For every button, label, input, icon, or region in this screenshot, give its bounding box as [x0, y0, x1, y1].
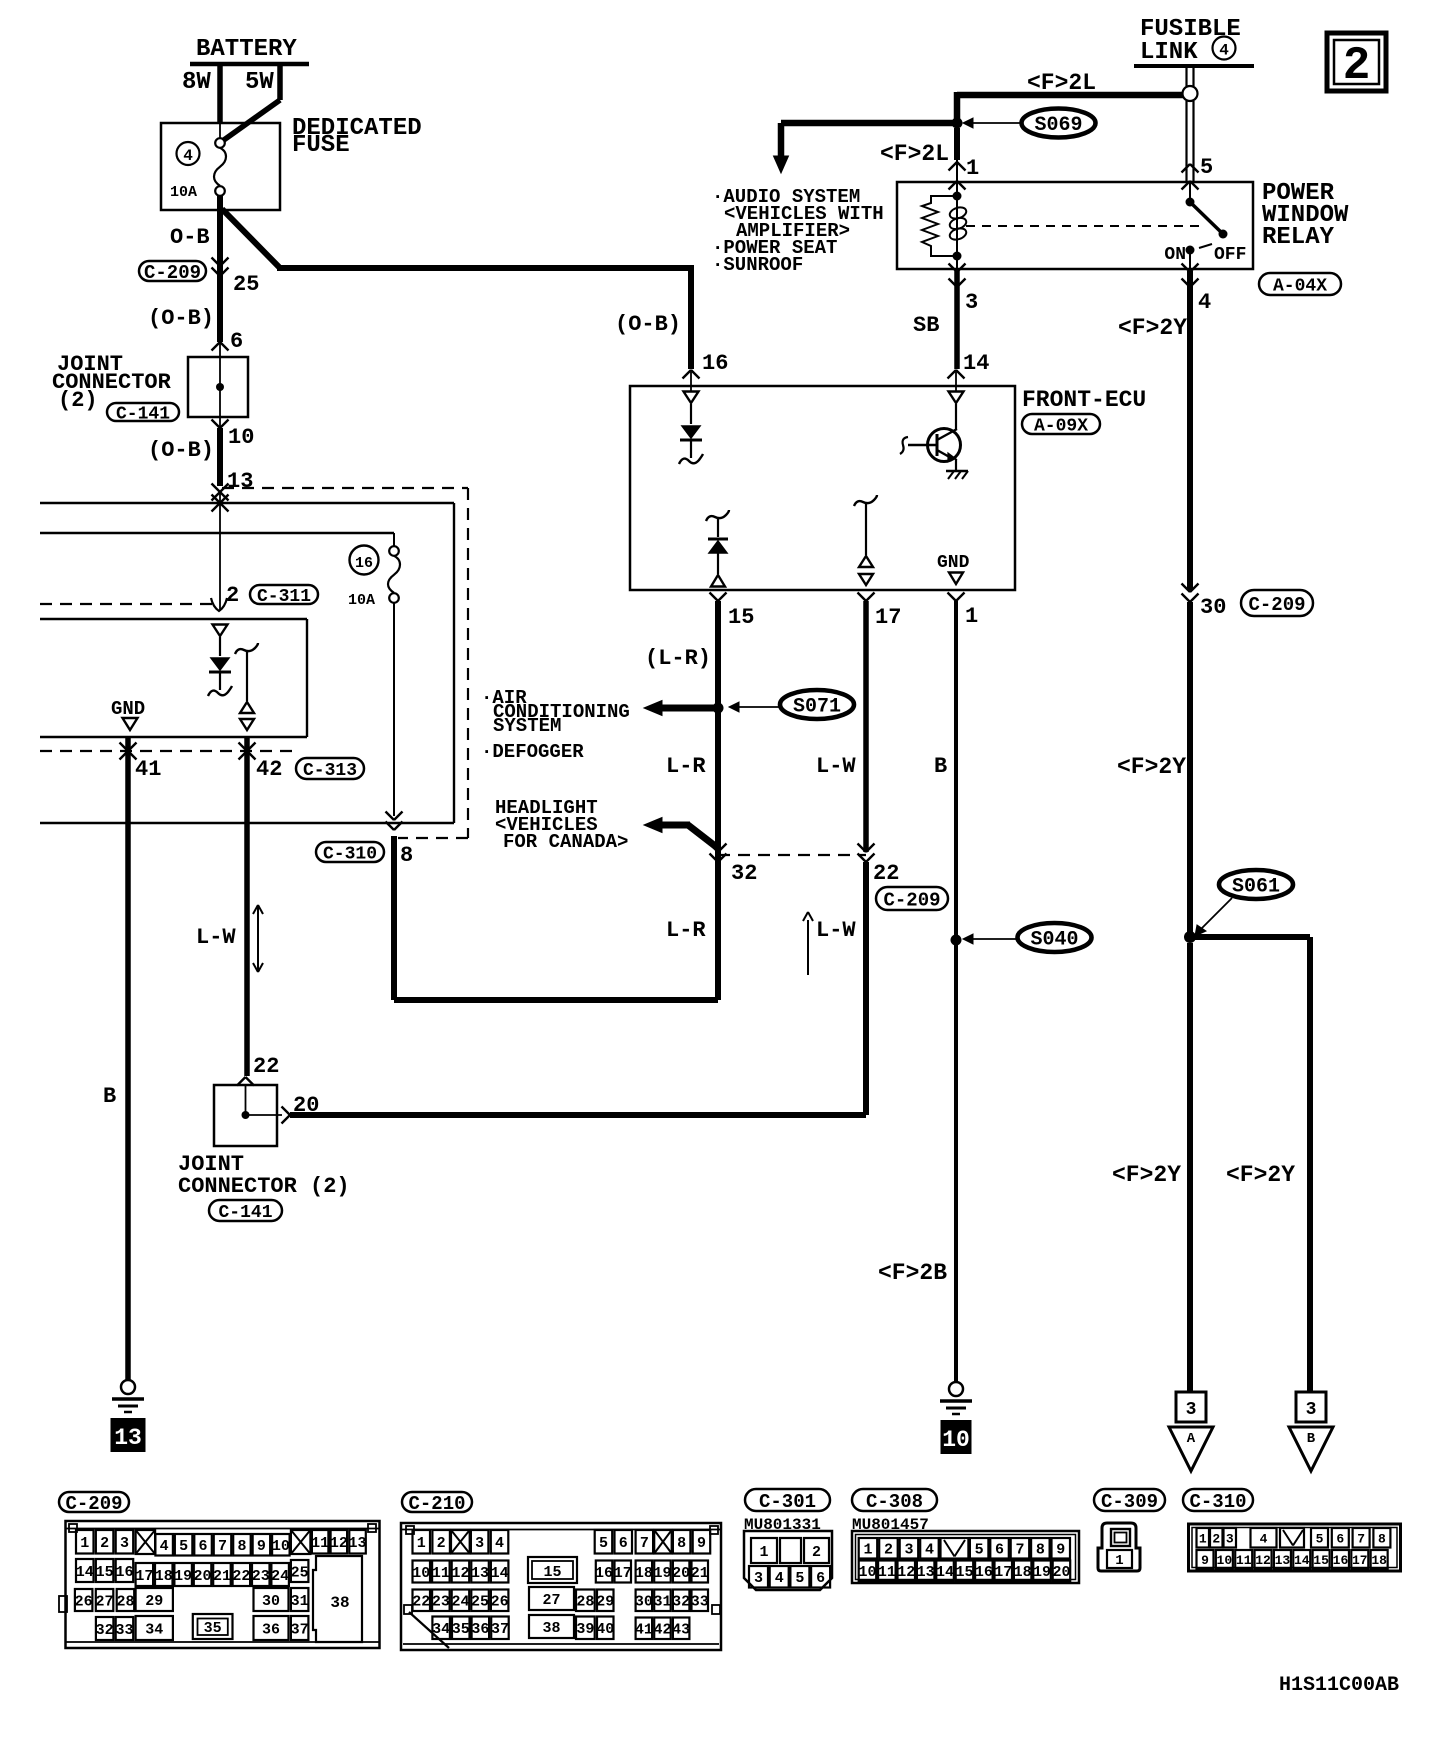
svg-text:36: 36 [471, 1621, 489, 1638]
svg-text:16: 16 [115, 1564, 133, 1581]
svg-text:4: 4 [183, 147, 193, 165]
svg-text:13: 13 [114, 1425, 142, 1451]
svg-text:3: 3 [904, 1542, 913, 1559]
svg-text:1: 1 [80, 1535, 89, 1552]
svg-text:A-09X: A-09X [1034, 416, 1088, 436]
svg-text:13: 13 [227, 469, 253, 494]
svg-text:22: 22 [232, 1568, 250, 1585]
svg-text:2: 2 [1343, 40, 1371, 92]
svg-text:3: 3 [754, 1570, 763, 1587]
svg-text:·SUNROOF: ·SUNROOF [712, 254, 803, 276]
svg-text:34: 34 [145, 1621, 163, 1638]
svg-text:A-04X: A-04X [1273, 276, 1327, 296]
svg-text:12: 12 [330, 1535, 348, 1552]
svg-text:B: B [934, 754, 947, 779]
svg-text:32: 32 [96, 1622, 114, 1639]
svg-text:7: 7 [218, 1538, 227, 1555]
svg-text:SYSTEM: SYSTEM [493, 715, 561, 737]
svg-text:42: 42 [653, 1622, 671, 1639]
svg-text:<F>2B: <F>2B [878, 1260, 947, 1286]
svg-text:15: 15 [1313, 1553, 1329, 1568]
svg-text:16: 16 [1333, 1553, 1349, 1568]
svg-text:28: 28 [576, 1594, 594, 1611]
svg-text:2: 2 [226, 583, 239, 608]
svg-text:·DEFOGGER: ·DEFOGGER [481, 741, 584, 763]
svg-text:H1S11C00AB: H1S11C00AB [1279, 1674, 1399, 1697]
svg-text:9: 9 [1056, 1542, 1065, 1559]
svg-text:3: 3 [475, 1535, 484, 1552]
svg-text:11: 11 [878, 1564, 896, 1581]
svg-text:<F>2L: <F>2L [1027, 70, 1096, 96]
svg-text:13: 13 [349, 1535, 367, 1552]
svg-text:5: 5 [599, 1535, 608, 1552]
svg-text:29: 29 [596, 1594, 614, 1611]
svg-text:5: 5 [1200, 155, 1213, 180]
svg-text:11: 11 [432, 1565, 450, 1582]
svg-text:SB: SB [913, 313, 939, 338]
svg-text:FRONT-ECU: FRONT-ECU [1022, 387, 1146, 413]
svg-text:4: 4 [1198, 290, 1211, 315]
svg-text:19: 19 [1033, 1564, 1051, 1581]
svg-text:2: 2 [437, 1535, 446, 1552]
svg-text:L-R: L-R [666, 918, 706, 943]
svg-text:LINK: LINK [1140, 39, 1198, 66]
svg-text:17: 17 [135, 1568, 153, 1585]
svg-text:20: 20 [672, 1565, 690, 1582]
svg-text:4: 4 [160, 1538, 169, 1555]
svg-text:4: 4 [775, 1570, 784, 1587]
svg-text:RELAY: RELAY [1262, 224, 1335, 251]
svg-text:<F>2Y: <F>2Y [1112, 1162, 1181, 1188]
svg-text:L-W: L-W [196, 925, 236, 950]
svg-text:14: 14 [491, 1565, 509, 1582]
svg-text:27: 27 [96, 1593, 114, 1610]
svg-text:C-301: C-301 [759, 1491, 816, 1513]
svg-text:C-141: C-141 [116, 404, 170, 424]
svg-text:15: 15 [543, 1564, 561, 1581]
svg-text:C-308: C-308 [866, 1491, 923, 1513]
svg-text:3: 3 [1186, 1400, 1197, 1420]
svg-text:18: 18 [1371, 1553, 1387, 1568]
svg-text:C-209: C-209 [1248, 594, 1305, 616]
svg-text:1: 1 [1115, 1553, 1123, 1569]
svg-text:7: 7 [640, 1535, 649, 1552]
svg-text:<F>2L: <F>2L [880, 141, 949, 167]
svg-text:4: 4 [1260, 1531, 1268, 1546]
svg-text:17: 17 [875, 605, 901, 630]
svg-text:24: 24 [451, 1594, 469, 1611]
svg-text:20: 20 [194, 1568, 212, 1585]
svg-text:10A: 10A [348, 592, 375, 609]
svg-text:10: 10 [228, 425, 254, 450]
svg-text:15: 15 [955, 1564, 973, 1581]
svg-text:10A: 10A [170, 184, 197, 201]
svg-text:L-W: L-W [816, 918, 856, 943]
svg-text:31: 31 [653, 1594, 671, 1611]
svg-text:GND: GND [111, 698, 145, 720]
svg-text:16: 16 [355, 555, 373, 572]
svg-text:30: 30 [635, 1594, 653, 1611]
svg-text:22: 22 [253, 1054, 279, 1079]
svg-text:5: 5 [975, 1542, 984, 1559]
svg-text:26: 26 [75, 1593, 93, 1610]
svg-text:23: 23 [432, 1594, 450, 1611]
svg-text:10: 10 [1217, 1553, 1233, 1568]
svg-text:C-311: C-311 [257, 587, 311, 607]
svg-text:12: 12 [451, 1565, 469, 1582]
svg-text:11: 11 [1236, 1553, 1252, 1568]
svg-text:6: 6 [230, 329, 243, 354]
svg-text:15: 15 [728, 605, 754, 630]
svg-text:16: 16 [702, 351, 728, 376]
svg-text:8: 8 [677, 1535, 686, 1552]
svg-text:21: 21 [213, 1568, 231, 1585]
svg-text:35: 35 [452, 1621, 470, 1638]
svg-text:O-B: O-B [170, 225, 210, 250]
svg-text:37: 37 [491, 1621, 509, 1638]
svg-text:10: 10 [858, 1564, 876, 1581]
svg-text:<F>2Y: <F>2Y [1117, 754, 1186, 780]
svg-text:14: 14 [936, 1564, 954, 1581]
svg-text:25: 25 [233, 272, 259, 297]
svg-text:8: 8 [1378, 1531, 1386, 1546]
svg-text:9: 9 [1201, 1553, 1209, 1568]
svg-text:C-210: C-210 [408, 1493, 465, 1515]
svg-text:11: 11 [311, 1535, 329, 1552]
svg-text:1: 1 [759, 1544, 768, 1561]
svg-text:1: 1 [966, 156, 979, 181]
svg-text:2: 2 [1212, 1531, 1220, 1546]
svg-text:20: 20 [1052, 1564, 1070, 1581]
svg-text:17: 17 [614, 1565, 632, 1582]
svg-text:6: 6 [199, 1538, 208, 1555]
svg-text:34: 34 [432, 1621, 450, 1638]
svg-text:14: 14 [1294, 1553, 1310, 1568]
svg-text:6: 6 [995, 1542, 1004, 1559]
svg-text:38: 38 [330, 1594, 349, 1612]
svg-text:ON: ON [1164, 245, 1186, 265]
svg-text:13: 13 [471, 1565, 489, 1582]
svg-text:FOR CANADA>: FOR CANADA> [503, 831, 628, 853]
svg-text:14: 14 [76, 1564, 94, 1581]
svg-text:C-209: C-209 [144, 262, 201, 284]
svg-text:13: 13 [917, 1564, 935, 1581]
svg-text:2: 2 [812, 1544, 821, 1561]
svg-text:15: 15 [96, 1564, 114, 1581]
svg-text:36: 36 [262, 1621, 280, 1638]
svg-text:27: 27 [542, 1592, 560, 1609]
svg-text:38: 38 [542, 1620, 560, 1637]
svg-text:5: 5 [179, 1538, 188, 1555]
svg-text:30: 30 [262, 1593, 280, 1610]
svg-text:3: 3 [1226, 1531, 1234, 1546]
svg-text:24: 24 [271, 1568, 289, 1585]
svg-text:S040: S040 [1030, 929, 1078, 952]
svg-text:8: 8 [400, 843, 413, 868]
svg-text:B: B [1307, 1431, 1316, 1447]
svg-text:6: 6 [1336, 1531, 1344, 1546]
svg-text:41: 41 [135, 757, 161, 782]
svg-text:(2): (2) [58, 388, 98, 413]
svg-text:19: 19 [174, 1568, 192, 1585]
svg-text:25: 25 [471, 1594, 489, 1611]
svg-text:<F>2Y: <F>2Y [1226, 1162, 1295, 1188]
svg-text:C-209: C-209 [65, 1493, 122, 1515]
svg-text:26: 26 [491, 1594, 509, 1611]
svg-text:3: 3 [1306, 1400, 1317, 1420]
svg-text:(O-B): (O-B) [148, 306, 214, 331]
svg-text:1: 1 [417, 1535, 426, 1552]
svg-text:32: 32 [672, 1594, 690, 1611]
svg-text:3: 3 [120, 1535, 129, 1552]
svg-text:18: 18 [635, 1565, 653, 1582]
svg-text:6: 6 [816, 1570, 825, 1587]
svg-text:28: 28 [116, 1593, 134, 1610]
svg-text:16: 16 [595, 1565, 613, 1582]
svg-text:32: 32 [731, 861, 757, 886]
svg-text:37: 37 [291, 1621, 309, 1638]
svg-text:5W: 5W [245, 69, 274, 96]
svg-text:C-310: C-310 [323, 844, 377, 864]
svg-text:13: 13 [1275, 1553, 1291, 1568]
svg-text:33: 33 [691, 1594, 709, 1611]
svg-text:(O-B): (O-B) [615, 312, 681, 337]
svg-text:42: 42 [256, 757, 282, 782]
svg-text:(O-B): (O-B) [148, 438, 214, 463]
svg-text:4: 4 [495, 1535, 504, 1552]
svg-text:C-310: C-310 [1189, 1491, 1246, 1513]
svg-text:B: B [103, 1084, 116, 1109]
svg-text:OFF: OFF [1214, 245, 1246, 265]
svg-text:BATTERY: BATTERY [196, 36, 297, 63]
svg-text:A: A [1187, 1431, 1196, 1447]
svg-text:30: 30 [1200, 595, 1226, 620]
svg-text:22: 22 [412, 1594, 430, 1611]
svg-text:16: 16 [975, 1564, 993, 1581]
svg-text:C-209: C-209 [883, 889, 940, 911]
svg-text:3: 3 [965, 290, 978, 315]
svg-text:S069: S069 [1034, 114, 1082, 137]
svg-text:S061: S061 [1232, 876, 1280, 899]
svg-text:6: 6 [619, 1535, 628, 1552]
svg-text:12: 12 [897, 1564, 915, 1581]
svg-text:8W: 8W [182, 69, 211, 96]
svg-text:12: 12 [1255, 1553, 1271, 1568]
svg-text:17: 17 [1352, 1553, 1368, 1568]
svg-text:41: 41 [635, 1622, 653, 1639]
svg-text:22: 22 [873, 861, 899, 886]
svg-text:10: 10 [412, 1565, 430, 1582]
svg-text:18: 18 [155, 1568, 173, 1585]
svg-text:7: 7 [1357, 1531, 1365, 1546]
svg-text:43: 43 [672, 1622, 690, 1639]
svg-text:FUSE: FUSE [292, 132, 350, 159]
svg-text:5: 5 [1316, 1531, 1324, 1546]
svg-text:31: 31 [291, 1593, 309, 1610]
svg-text:25: 25 [291, 1564, 309, 1581]
svg-text:21: 21 [691, 1565, 709, 1582]
svg-text:8: 8 [1036, 1542, 1045, 1559]
svg-text:33: 33 [115, 1622, 133, 1639]
svg-text:1: 1 [965, 604, 978, 629]
svg-text:S071: S071 [793, 696, 841, 719]
svg-text:4: 4 [925, 1542, 934, 1559]
svg-text:4: 4 [1219, 42, 1229, 60]
svg-text:40: 40 [596, 1621, 614, 1638]
svg-text:<F>2Y: <F>2Y [1118, 315, 1187, 341]
svg-text:CONNECTOR (2): CONNECTOR (2) [178, 1174, 350, 1199]
svg-text:9: 9 [697, 1535, 706, 1552]
svg-text:GND: GND [937, 553, 970, 573]
svg-text:C-141: C-141 [218, 1203, 272, 1223]
svg-text:1: 1 [863, 1542, 872, 1559]
svg-text:14: 14 [963, 351, 989, 376]
svg-text:39: 39 [576, 1621, 594, 1638]
svg-text:C-313: C-313 [303, 761, 357, 781]
svg-text:10: 10 [942, 1427, 970, 1453]
svg-text:L-W: L-W [816, 754, 856, 779]
svg-text:(L-R): (L-R) [645, 646, 711, 671]
svg-text:19: 19 [653, 1565, 671, 1582]
svg-text:C-309: C-309 [1101, 1491, 1158, 1513]
svg-text:23: 23 [252, 1568, 270, 1585]
svg-text:18: 18 [1014, 1564, 1032, 1581]
svg-text:L-R: L-R [666, 754, 706, 779]
svg-text:2: 2 [884, 1542, 893, 1559]
svg-text:29: 29 [145, 1593, 163, 1610]
svg-text:9: 9 [257, 1538, 266, 1555]
svg-text:5: 5 [795, 1570, 804, 1587]
svg-text:7: 7 [1015, 1542, 1024, 1559]
svg-text:8: 8 [237, 1538, 246, 1555]
svg-text:10: 10 [272, 1538, 290, 1555]
svg-text:2: 2 [100, 1535, 109, 1552]
svg-text:17: 17 [994, 1564, 1012, 1581]
svg-text:1: 1 [1199, 1531, 1207, 1546]
